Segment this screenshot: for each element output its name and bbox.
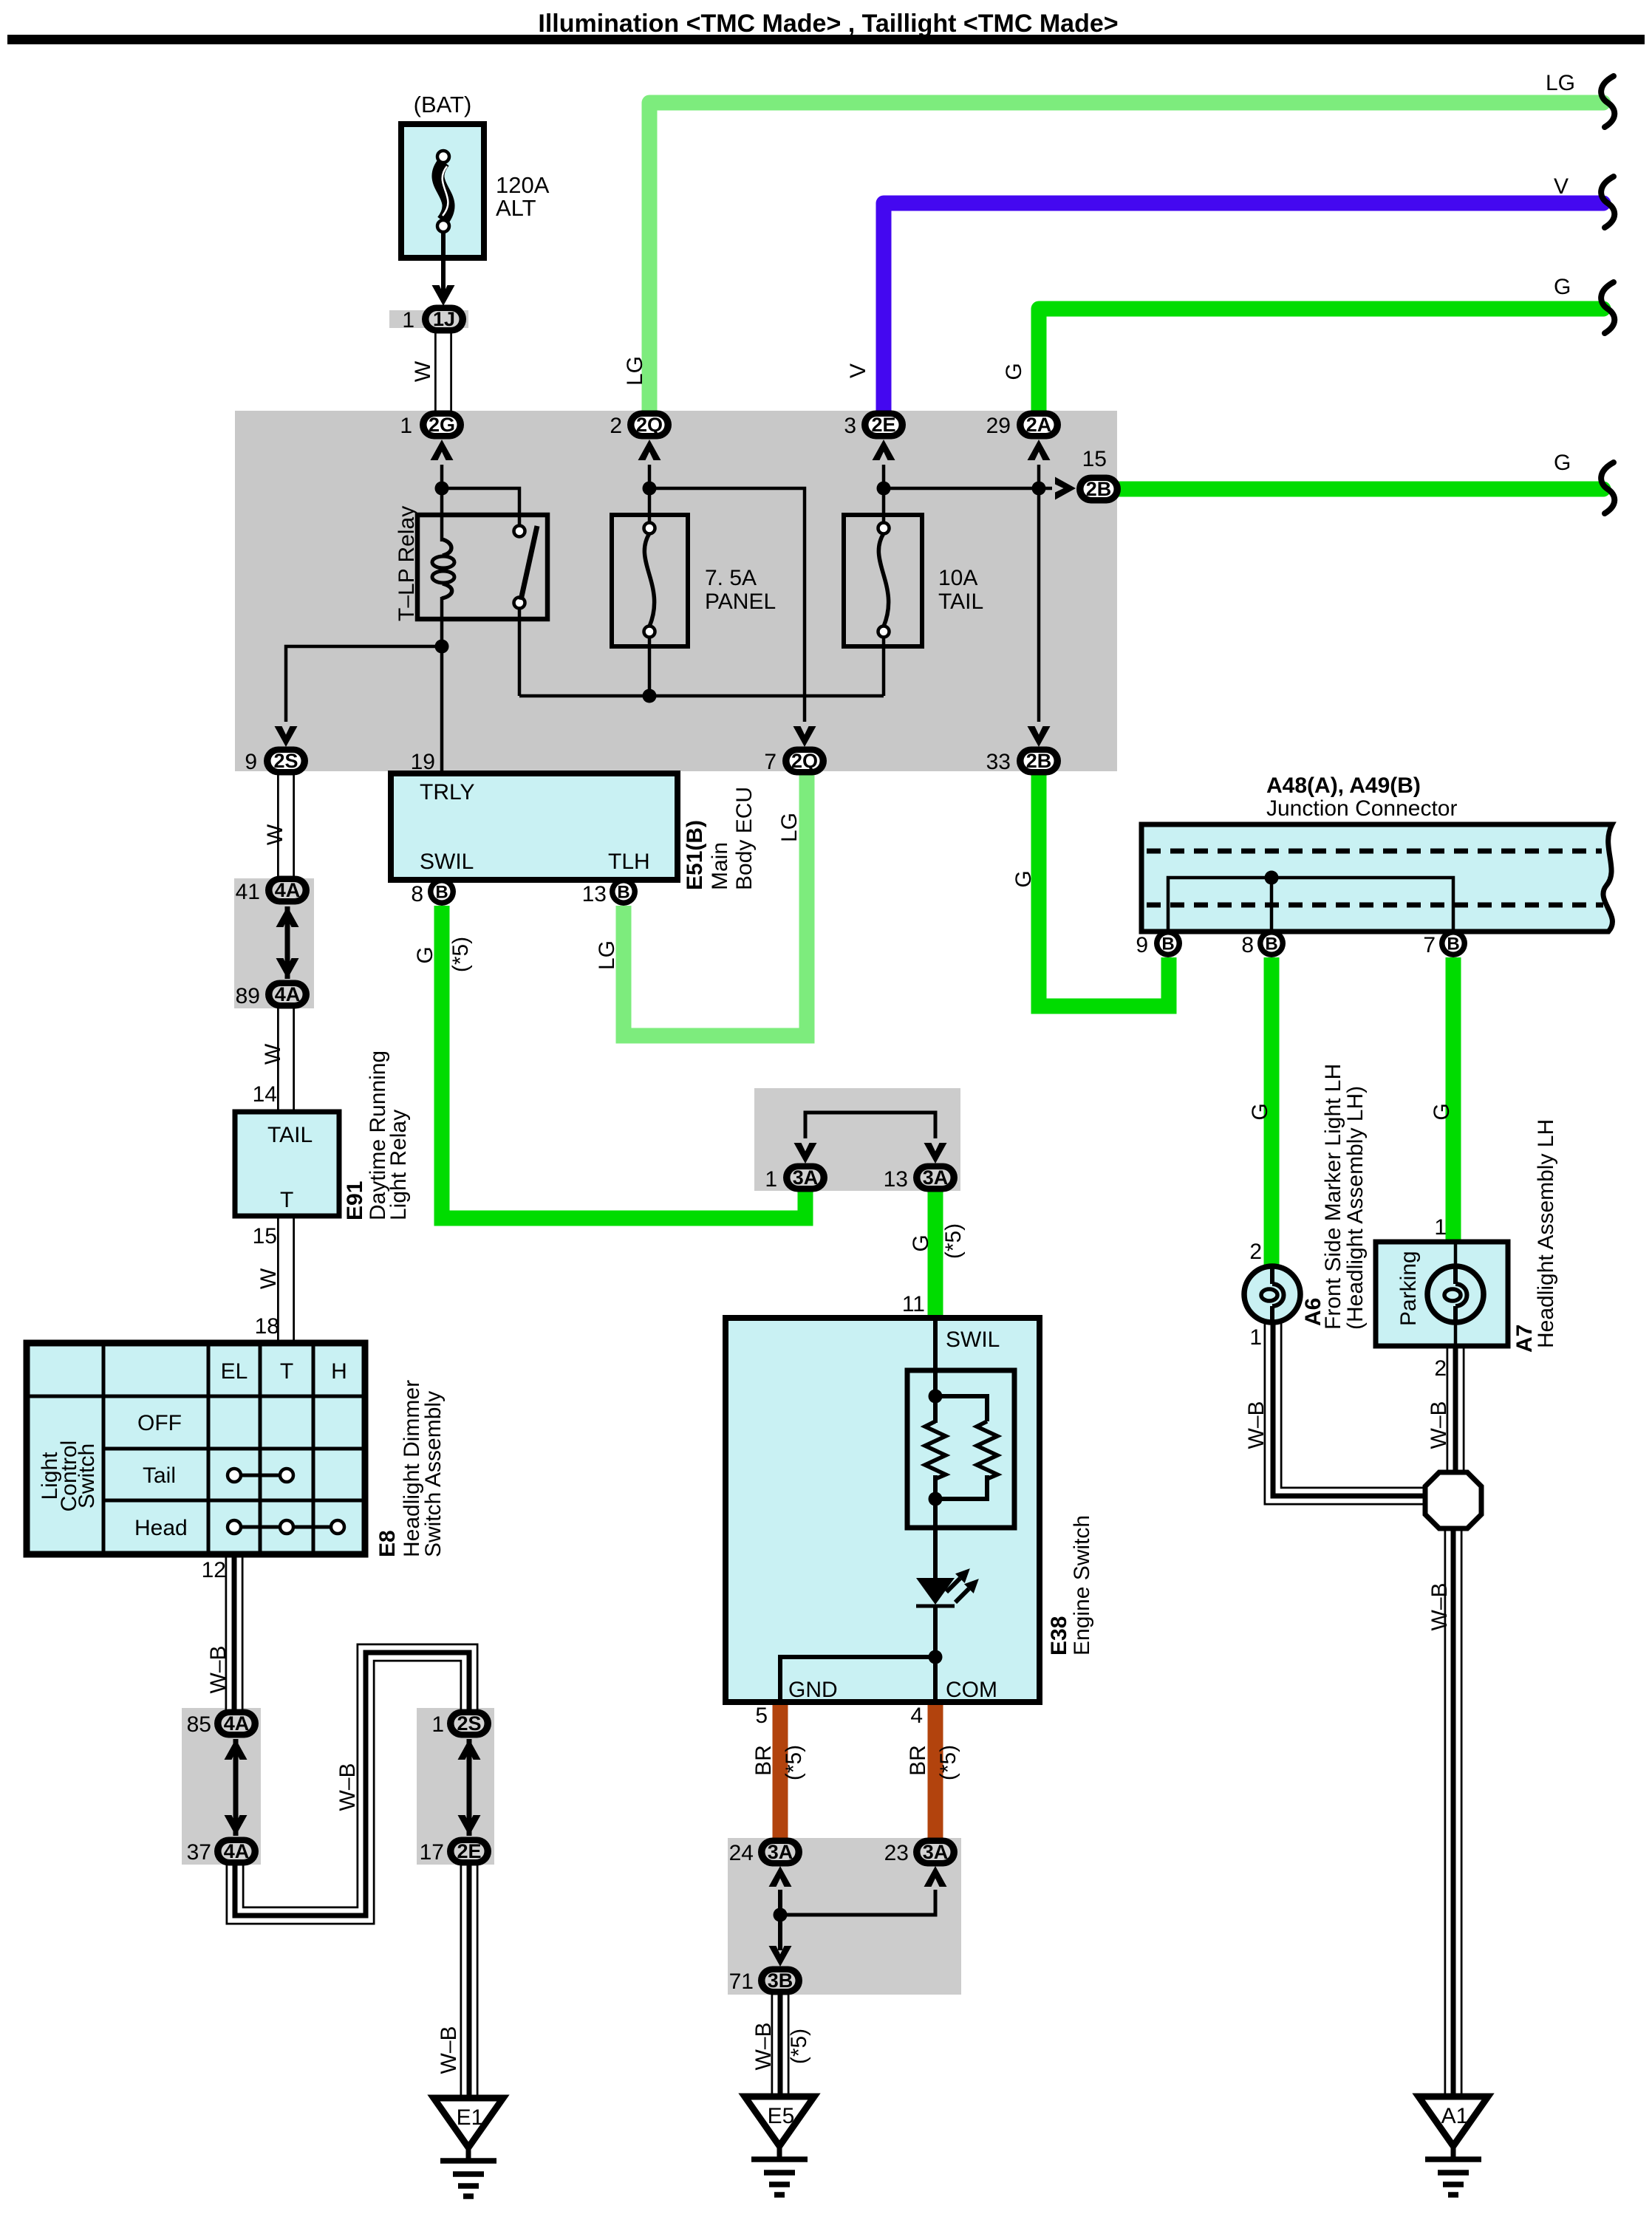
svg-text:23: 23 [884,1841,909,1865]
svg-text:Head: Head [134,1516,188,1540]
svg-text:BR: BR [751,1745,776,1776]
svg-text:2G: 2G [429,414,455,436]
svg-text:2A: 2A [1026,414,1052,436]
svg-text:1: 1 [765,1167,777,1192]
svg-text:Light Relay: Light Relay [386,1110,411,1220]
svg-text:2E: 2E [457,1840,481,1862]
svg-text:1: 1 [431,1712,444,1737]
svg-text:B: B [1265,935,1277,954]
svg-text:17: 17 [420,1840,444,1865]
svg-text:15: 15 [253,1224,277,1248]
svg-text:G: G [1011,870,1036,887]
svg-text:W–B: W–B [1244,1401,1269,1449]
svg-text:2: 2 [610,414,622,438]
svg-text:W–B: W–B [1427,1582,1452,1630]
svg-text:B: B [1447,935,1459,954]
svg-text:2Q: 2Q [791,750,818,772]
svg-text:G: G [413,946,437,963]
svg-text:E91: E91 [343,1181,367,1220]
svg-text:EL: EL [221,1359,248,1384]
svg-text:Switch Assembly: Switch Assembly [421,1391,446,1557]
svg-text:BR: BR [906,1745,930,1776]
svg-text:T: T [280,1359,293,1384]
svg-text:(Headlight Assembly LH): (Headlight Assembly LH) [1343,1086,1368,1330]
svg-text:3A: 3A [793,1166,819,1189]
svg-text:H: H [331,1359,347,1384]
svg-text:4A: 4A [224,1840,250,1862]
svg-text:E5: E5 [768,2104,795,2128]
svg-text:TLH: TLH [608,850,650,874]
svg-text:E51(B): E51(B) [683,820,707,890]
svg-text:Parking: Parking [1396,1251,1421,1326]
svg-text:W–B: W–B [335,1763,360,1811]
svg-text:2B: 2B [1086,478,1112,500]
svg-text:Engine Switch: Engine Switch [1070,1515,1094,1656]
svg-text:PANEL: PANEL [705,590,776,614]
svg-text:Main: Main [708,842,732,890]
svg-text:15: 15 [1082,447,1107,471]
svg-text:8: 8 [411,882,423,906]
svg-text:13: 13 [582,882,607,906]
svg-text:18: 18 [255,1314,279,1339]
svg-text:Junction Connector: Junction Connector [1266,796,1458,821]
svg-text:9: 9 [245,750,257,774]
svg-text:33: 33 [986,750,1011,774]
svg-text:W: W [256,1268,281,1289]
svg-text:LG: LG [595,940,619,970]
svg-text:2Q: 2Q [636,414,663,436]
svg-text:37: 37 [187,1840,211,1865]
svg-text:(BAT): (BAT) [414,92,472,117]
svg-text:B: B [435,883,448,903]
svg-text:89: 89 [236,984,260,1008]
svg-text:24: 24 [729,1841,754,1865]
svg-text:E8: E8 [375,1530,400,1557]
svg-text:V: V [846,363,870,378]
svg-text:4: 4 [910,1704,923,1728]
svg-text:GND: GND [788,1678,838,1702]
svg-text:2S: 2S [457,1712,481,1735]
svg-text:TRLY: TRLY [420,780,474,804]
svg-text:LG: LG [1546,71,1575,95]
svg-text:W: W [263,824,287,845]
svg-text:ALT: ALT [496,195,536,221]
svg-text:W–B: W–B [206,1645,231,1693]
svg-text:W–B: W–B [1427,1401,1451,1449]
svg-text:7. 5A: 7. 5A [705,566,757,590]
svg-text:7: 7 [764,750,776,774]
svg-text:OFF: OFF [137,1411,182,1435]
svg-text:Illumination <TMC Made> , Tail: Illumination <TMC Made> , Taillight <TMC… [538,10,1118,38]
svg-text:(*5): (*5) [787,2029,811,2064]
svg-text:1: 1 [1434,1215,1447,1240]
svg-text:E1: E1 [457,2105,484,2130]
svg-text:Body ECU: Body ECU [732,787,757,890]
svg-text:8: 8 [1241,933,1254,957]
svg-text:LG: LG [777,813,802,842]
svg-text:G: G [909,1234,933,1251]
svg-text:Switch: Switch [75,1443,99,1509]
svg-text:T: T [280,1188,293,1212]
svg-text:TAIL: TAIL [267,1123,313,1147]
svg-text:Tail: Tail [143,1463,176,1488]
svg-text:4A: 4A [224,1712,250,1735]
svg-text:4A: 4A [275,983,301,1005]
svg-text:G: G [1430,1103,1454,1120]
svg-text:10A: 10A [938,566,977,590]
svg-text:G: G [1554,451,1571,475]
svg-text:9: 9 [1136,933,1148,957]
svg-text:COM: COM [946,1678,997,1702]
svg-text:120A: 120A [496,172,550,198]
svg-text:1: 1 [400,414,412,438]
svg-text:2B: 2B [1026,750,1052,772]
svg-text:2E: 2E [871,414,895,436]
svg-text:19: 19 [411,750,435,774]
svg-text:14: 14 [253,1082,277,1107]
svg-text:3A: 3A [923,1166,949,1189]
svg-text:85: 85 [187,1712,211,1737]
svg-text:2: 2 [1434,1356,1447,1381]
svg-text:W–B: W–B [751,2022,776,2070]
svg-text:7: 7 [1423,933,1436,957]
svg-text:T–LP Relay: T–LP Relay [395,506,419,621]
svg-text:2S: 2S [273,750,298,772]
svg-text:2: 2 [1249,1240,1262,1264]
svg-text:B: B [617,883,629,903]
svg-text:3A: 3A [768,1841,793,1863]
svg-text:(*5): (*5) [941,1223,966,1259]
svg-text:W–B: W–B [437,2026,461,2074]
svg-text:V: V [1554,174,1569,199]
svg-text:G: G [1002,363,1026,380]
svg-text:3: 3 [844,414,856,438]
svg-text:SWIL: SWIL [946,1328,1000,1352]
svg-text:29: 29 [986,414,1011,438]
svg-text:B: B [1161,935,1174,954]
svg-text:4A: 4A [275,879,301,901]
svg-text:13: 13 [884,1167,908,1192]
svg-text:A48(A), A49(B): A48(A), A49(B) [1266,773,1421,798]
svg-text:12: 12 [202,1558,226,1582]
svg-text:LG: LG [623,356,647,386]
svg-text:W: W [411,361,435,382]
svg-text:G: G [1554,275,1571,299]
svg-text:(*5): (*5) [448,937,473,972]
svg-text:Front Side Marker Light LH: Front Side Marker Light LH [1321,1064,1345,1330]
svg-text:41: 41 [236,880,260,904]
svg-text:(*5): (*5) [936,1745,960,1780]
svg-text:W: W [261,1043,285,1065]
svg-text:71: 71 [729,1969,754,1994]
svg-text:3A: 3A [923,1841,949,1863]
svg-text:(*5): (*5) [782,1745,806,1780]
svg-text:5: 5 [755,1704,768,1728]
svg-text:11: 11 [902,1292,925,1316]
svg-text:G: G [1248,1103,1272,1120]
svg-text:A1: A1 [1441,2104,1469,2128]
svg-text:1: 1 [402,308,414,332]
svg-text:TAIL: TAIL [938,590,983,614]
svg-text:SWIL: SWIL [420,850,474,874]
svg-text:3B: 3B [768,1969,793,1992]
svg-text:E38: E38 [1047,1616,1071,1656]
svg-text:Headlight Assembly LH: Headlight Assembly LH [1534,1119,1558,1348]
svg-text:1: 1 [1249,1325,1262,1350]
svg-text:1J: 1J [433,308,455,330]
